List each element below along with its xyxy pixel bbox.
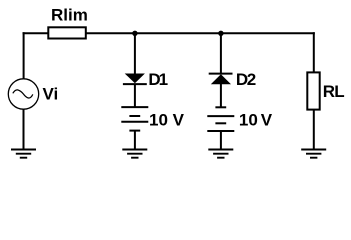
svg-text:L: L bbox=[334, 82, 344, 101]
svg-text:V: V bbox=[261, 111, 273, 130]
svg-text:10 V: 10 V bbox=[149, 111, 185, 130]
svg-text:Rlim: Rlim bbox=[51, 5, 88, 24]
svg-text:1: 1 bbox=[159, 70, 168, 89]
svg-text:10: 10 bbox=[239, 111, 258, 130]
svg-text:R: R bbox=[323, 82, 335, 101]
svg-text:Vi: Vi bbox=[43, 84, 59, 103]
svg-text:2: 2 bbox=[247, 70, 256, 89]
